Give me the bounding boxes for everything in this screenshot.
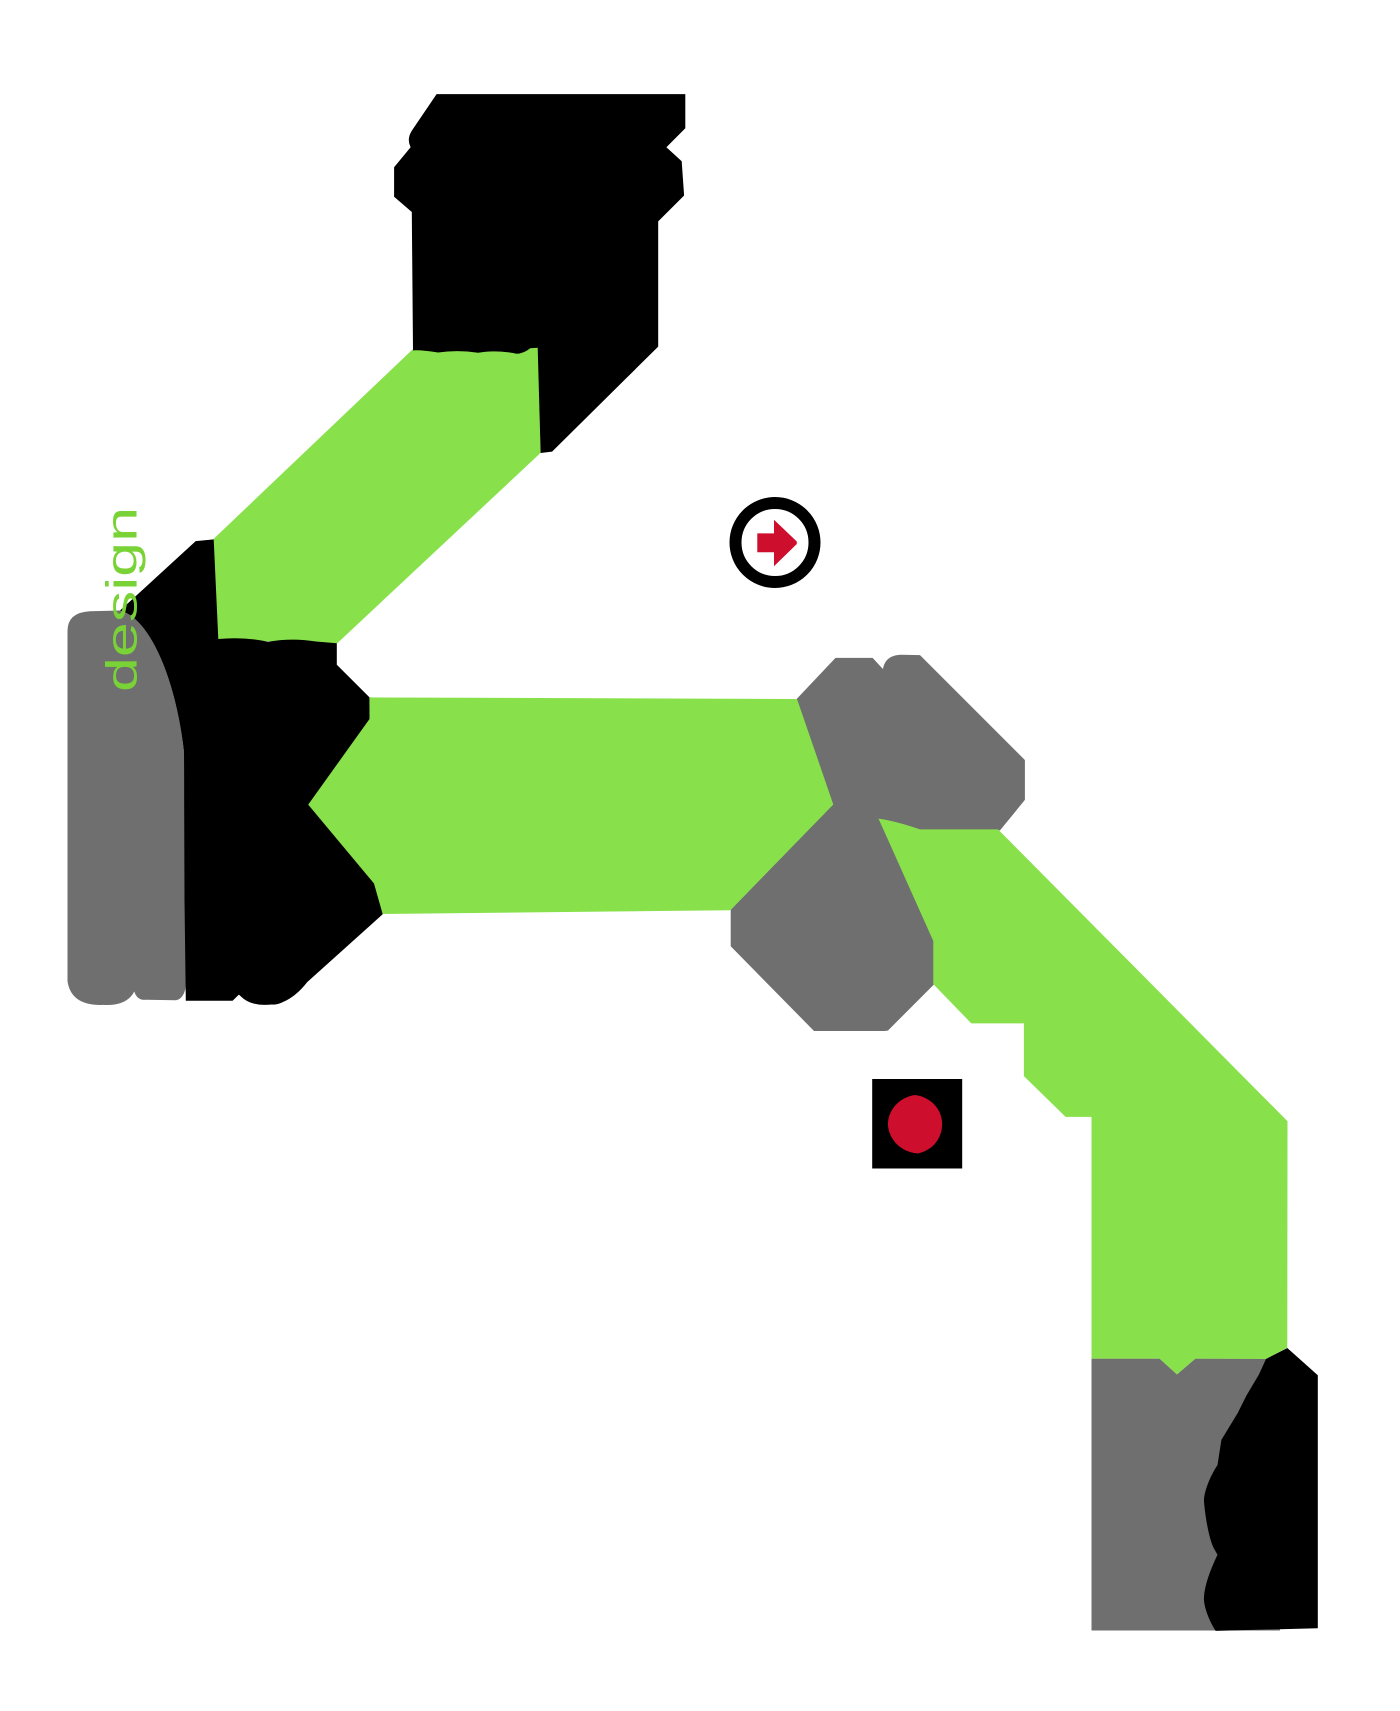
black S shape bottom-right: [1204, 1348, 1318, 1631]
gray left shape: [68, 611, 187, 1006]
gray clover middle: [731, 655, 1025, 1031]
black square: [872, 1079, 962, 1169]
red arrow in circle: [757, 520, 797, 566]
gray band bottom-right: [1092, 1359, 1281, 1631]
green band middle horizontal: [308, 697, 834, 914]
circle ring icon: [736, 503, 815, 582]
svg-text:design: design: [98, 507, 147, 692]
green band lower diagonal-vertical: [879, 819, 1288, 1375]
green band upper-left diagonal: [214, 347, 541, 644]
black left shape: [120, 539, 383, 1005]
red dot: [888, 1095, 942, 1154]
black top-left shape: [394, 94, 685, 453]
